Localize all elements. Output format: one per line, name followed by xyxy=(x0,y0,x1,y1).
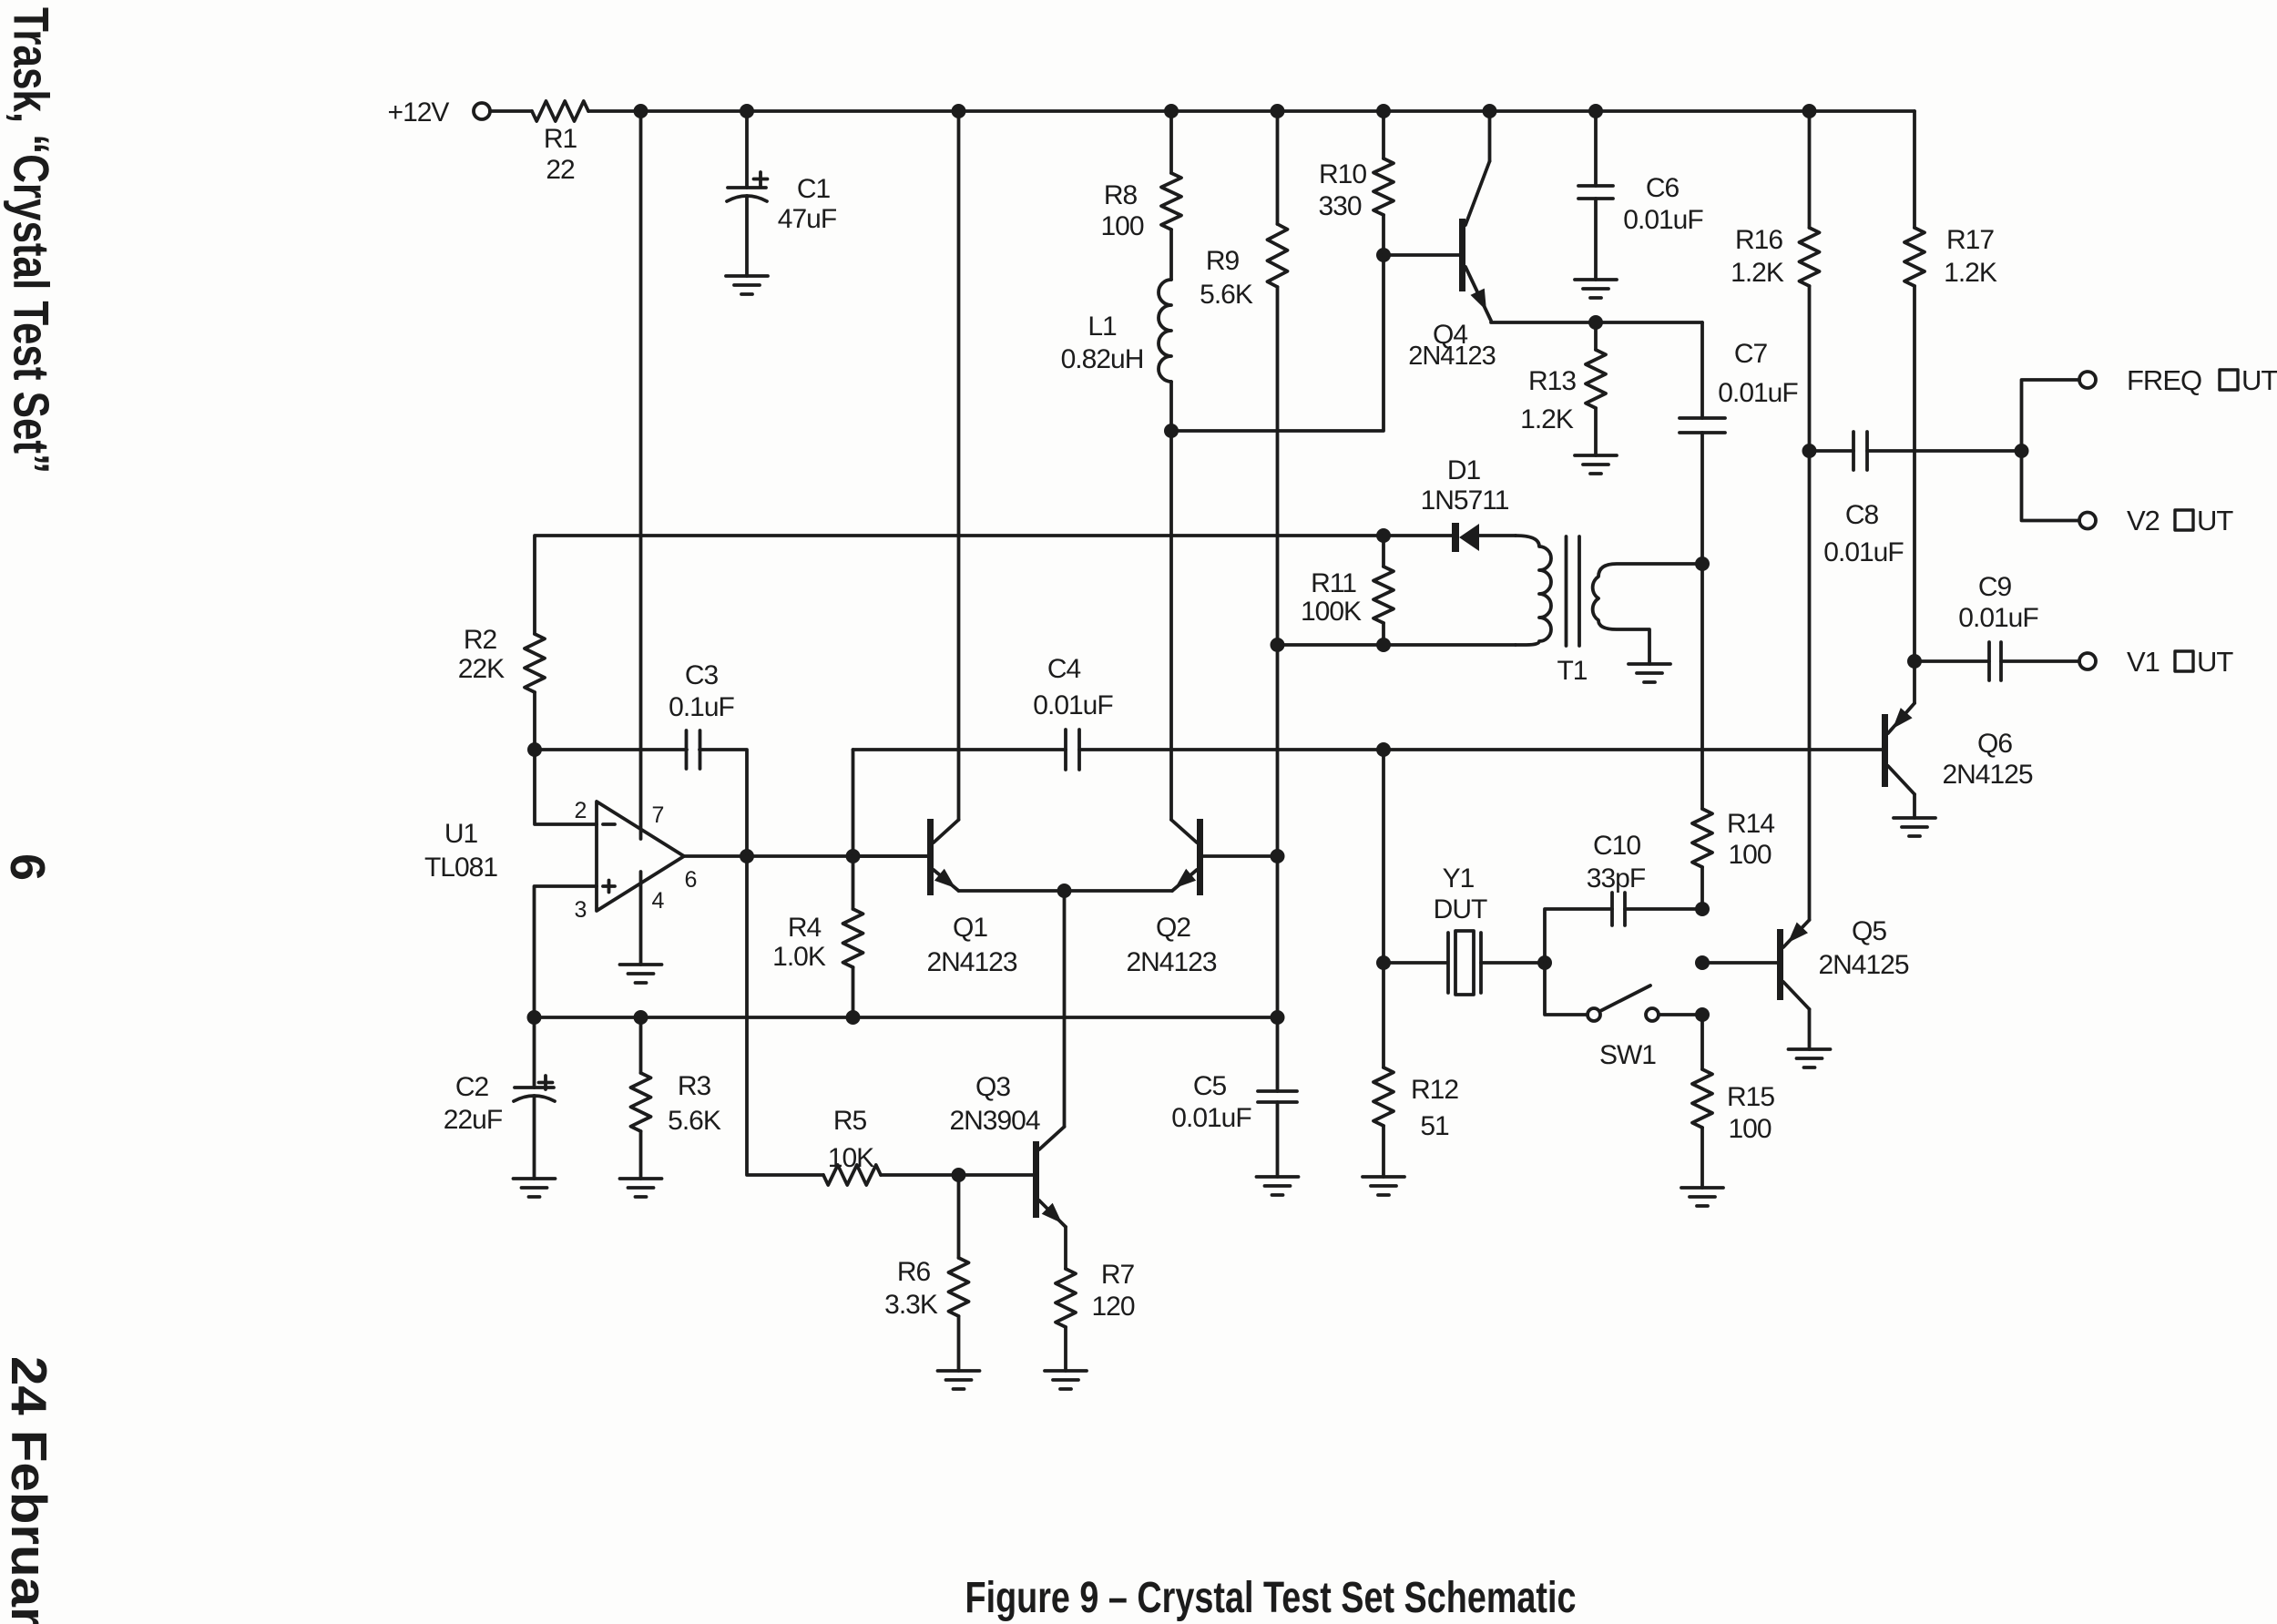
ground Q6 xyxy=(1894,818,1935,836)
junction rail / R4 xyxy=(846,1010,861,1025)
wire R5 to Q3 base xyxy=(881,1173,1033,1177)
wire R2 bottom to C3 node xyxy=(533,692,536,750)
wire Y1 branch down xyxy=(1382,750,1385,963)
svg-text:R11: R11 xyxy=(1311,568,1356,598)
junction Q5 base / C10 / R14 column xyxy=(1695,955,1710,970)
ground T1 secondary xyxy=(1629,664,1670,682)
text figure caption xyxy=(965,1574,1577,1622)
svg-text:1N5711: 1N5711 xyxy=(1421,485,1509,516)
svg-text:Trask, “Crystal Test Set”: Trask, “Crystal Test Set” xyxy=(4,7,60,474)
svg-text:C8: C8 xyxy=(1845,500,1879,530)
junction rail / C2 xyxy=(527,1010,542,1025)
wire R9 column down xyxy=(1276,287,1280,1017)
svg-text:+12V: +12V xyxy=(388,97,450,128)
svg-text:UT: UT xyxy=(2197,646,2233,678)
svg-text:10K: 10K xyxy=(828,1143,874,1173)
svg-text:Q3: Q3 xyxy=(975,1072,1010,1102)
svg-text:2N4125: 2N4125 xyxy=(1942,760,2032,790)
wire R11 bottom to T1 primary bottom xyxy=(1278,643,1516,647)
wire Q3 emitter to R7 xyxy=(1064,1227,1067,1269)
resistor R4 1.0K xyxy=(772,856,863,1017)
resistor R16 1.2K xyxy=(1731,111,1819,451)
svg-text:2N4125: 2N4125 xyxy=(1818,950,1908,980)
svg-text:100: 100 xyxy=(1728,840,1771,870)
wire U1 output xyxy=(684,854,927,858)
resistor R12 51 xyxy=(1373,963,1458,1177)
svg-text:Q6: Q6 xyxy=(1977,729,2012,759)
transistor Q1 2N4123 xyxy=(926,819,1016,977)
ground R6 xyxy=(938,1371,980,1389)
junction top rail / R16 xyxy=(1802,104,1817,118)
svg-text:100K: 100K xyxy=(1301,597,1362,627)
junction top rail / C6 xyxy=(1588,104,1603,118)
capacitor C1 47uF electrolytic xyxy=(727,111,837,276)
svg-text:24 February: 24 February xyxy=(1,1356,57,1624)
svg-text:5.6K: 5.6K xyxy=(668,1106,721,1136)
junction U1 output / C3 column xyxy=(740,849,754,863)
svg-text:1.0K: 1.0K xyxy=(772,942,826,972)
svg-text:R9: R9 xyxy=(1206,246,1240,276)
switch SW1 xyxy=(1588,986,1702,1070)
junction top rail / U1 pin7 column xyxy=(634,104,648,118)
svg-text:R3: R3 xyxy=(678,1071,711,1101)
svg-text:R6: R6 xyxy=(897,1257,931,1287)
wire Q2 base to R9 column xyxy=(1203,854,1278,858)
svg-text:33pF: 33pF xyxy=(1587,863,1646,894)
resistor R6 3.3K xyxy=(884,1175,968,1371)
wire U1 pin4 to ground xyxy=(639,872,643,965)
svg-text:6: 6 xyxy=(685,867,697,893)
wire Q6 collector down xyxy=(1913,794,1916,818)
junction top rail / C1 xyxy=(740,104,754,118)
resistor R13 1.2K xyxy=(1520,322,1606,455)
svg-text:R15: R15 xyxy=(1727,1082,1774,1112)
svg-text:DUT: DUT xyxy=(1434,894,1487,924)
wire Q3 collector to emitters junction xyxy=(1063,891,1067,1127)
wire +12V terminal to R1 xyxy=(490,109,532,113)
junction R14 / C10 xyxy=(1695,902,1710,916)
svg-text:V1: V1 xyxy=(2127,646,2160,678)
svg-text:0.01uF: 0.01uF xyxy=(1171,1103,1251,1133)
svg-text:2N3904: 2N3904 xyxy=(949,1106,1039,1136)
node R2 / C3 / pin2 junction xyxy=(527,742,542,757)
wire Q4 emitter to C7 corner xyxy=(1491,321,1702,324)
wire C4 node to Q6 base (long horizontal) xyxy=(853,748,1883,751)
ground C5 xyxy=(1257,1177,1299,1195)
junction long wire / Y1 branch xyxy=(1376,742,1391,757)
svg-text:0.01uF: 0.01uF xyxy=(1823,537,1904,567)
ground C6 xyxy=(1575,280,1617,298)
junction Y1 right / C10 / SW1 branch xyxy=(1537,955,1552,970)
svg-text:R2: R2 xyxy=(464,625,497,655)
resistor R14 100 xyxy=(1692,809,1774,909)
resistor R3 5.6K xyxy=(631,1017,721,1179)
junction R11 bottom / R11 xyxy=(1376,638,1391,652)
svg-text:TL081: TL081 xyxy=(424,853,497,883)
ground R7 xyxy=(1045,1371,1087,1389)
svg-text:U1: U1 xyxy=(444,819,478,849)
junction L1 / R10 bottom wire xyxy=(1164,424,1179,438)
wire U1 output down to R5 xyxy=(747,856,823,1175)
svg-text:C4: C4 xyxy=(1047,654,1081,684)
capacitor C6 0.01uF xyxy=(1578,111,1703,280)
resistor R8 100 xyxy=(1100,111,1181,241)
svg-text:V2: V2 xyxy=(2127,505,2160,536)
svg-text:T1: T1 xyxy=(1557,656,1587,686)
svg-text:R7: R7 xyxy=(1101,1260,1135,1290)
text sidebar date xyxy=(1,1356,57,1624)
junction top rail / R8 xyxy=(1164,104,1179,118)
inductor L1 0.82uH xyxy=(1061,230,1171,382)
crystal Y1 DUT xyxy=(1434,863,1545,995)
wire Q4 collector to top rail xyxy=(1488,111,1492,161)
wire Q4 base xyxy=(1384,253,1459,257)
transistor Q3 2N3904 xyxy=(949,1072,1066,1227)
wire output bracket xyxy=(2022,380,2080,521)
wire L1 bottom to R10 bottom xyxy=(1171,255,1384,431)
svg-text:R12: R12 xyxy=(1411,1075,1458,1105)
transistor Q5 2N4125 xyxy=(1777,916,1909,1009)
svg-text:6: 6 xyxy=(0,853,55,881)
transistor Q2 2N4123 xyxy=(1126,819,1216,977)
resistor R11 100K xyxy=(1301,536,1394,645)
capacitor C4 0.01uF xyxy=(1033,654,1113,770)
svg-text:2N4123: 2N4123 xyxy=(1408,342,1496,371)
wire D1 anode xyxy=(1384,534,1452,537)
text sidebar title xyxy=(4,7,60,474)
junction U1 output / Q1 base / C4 branch xyxy=(846,849,861,863)
svg-text:0.01uF: 0.01uF xyxy=(1623,205,1703,235)
resistor R7 120 xyxy=(1056,1260,1135,1371)
svg-text:7: 7 xyxy=(652,802,664,828)
svg-text:C6: C6 xyxy=(1646,173,1680,203)
svg-text:R1: R1 xyxy=(544,124,577,154)
svg-text:22K: 22K xyxy=(458,654,505,684)
capacitor C3 0.1uF xyxy=(535,660,747,856)
resistor R5 10K xyxy=(823,1106,881,1185)
capacitor C2 22uF electrolytic xyxy=(444,1017,555,1179)
svg-text:C7: C7 xyxy=(1734,339,1768,369)
junction R5 / R6 xyxy=(952,1168,966,1182)
svg-text:0.1uF: 0.1uF xyxy=(669,692,734,722)
transistor Q6 2N4125 xyxy=(1882,703,2033,794)
wire Q4 emitter node down to C7 xyxy=(1700,322,1704,418)
svg-text:Q1: Q1 xyxy=(953,913,987,943)
svg-text:R17: R17 xyxy=(1946,225,1994,255)
svg-text:100: 100 xyxy=(1728,1114,1771,1144)
node V1 OUT terminal xyxy=(2079,646,2233,678)
svg-text:22uF: 22uF xyxy=(444,1105,503,1135)
wire AGC feedback R2 top to D1 node xyxy=(535,536,1384,634)
svg-text:UT: UT xyxy=(2197,505,2233,536)
capacitor C9 0.01uF xyxy=(1958,572,2079,680)
ground R3 xyxy=(620,1179,662,1197)
svg-text:SW1: SW1 xyxy=(1599,1040,1656,1070)
wire C8 left xyxy=(1810,449,1854,453)
svg-text:0.01uF: 0.01uF xyxy=(1958,603,2038,633)
svg-text:0.82uH: 0.82uH xyxy=(1061,344,1144,374)
op-amp U1 TL081 xyxy=(424,798,697,923)
node FREQ OUT terminal xyxy=(2079,364,2277,396)
svg-text:C9: C9 xyxy=(1978,572,2012,602)
junction emitters / Q3 collector xyxy=(1057,883,1072,898)
svg-text:4: 4 xyxy=(652,888,665,914)
junction top rail / R10 xyxy=(1376,104,1391,118)
junction Q4 emitter wire / R13 xyxy=(1588,315,1603,330)
svg-text:R4: R4 xyxy=(788,913,822,943)
wire Q1 collector to top rail xyxy=(957,111,961,820)
ground C1 xyxy=(726,276,768,294)
ground C2 xyxy=(514,1179,556,1197)
ground U1 pin4 xyxy=(620,965,662,983)
svg-text:51: 51 xyxy=(1420,1111,1449,1141)
junction Q2 base / R9 column xyxy=(1271,849,1285,863)
svg-text:Y1: Y1 xyxy=(1443,863,1475,894)
svg-text:UT: UT xyxy=(2241,364,2277,396)
capacitor C10 33pF xyxy=(1587,831,1702,925)
capacitor C7 0.01uF xyxy=(1680,339,1798,564)
svg-text:2N4123: 2N4123 xyxy=(926,947,1016,977)
svg-text:C2: C2 xyxy=(455,1072,489,1102)
svg-text:1.2K: 1.2K xyxy=(1944,258,1997,288)
svg-text:C5: C5 xyxy=(1193,1071,1227,1101)
wire C4 left branch xyxy=(852,750,855,856)
wire Q6 emitter up to V1 node xyxy=(1913,661,1916,703)
junction Y1 left node / R12 xyxy=(1376,955,1391,970)
wire U1 pin3 non-inverting input xyxy=(535,886,597,1017)
svg-text:0.01uF: 0.01uF xyxy=(1033,690,1113,720)
wire C9 left xyxy=(1915,659,1989,663)
wire L1 to Q2 collector xyxy=(1169,382,1173,820)
svg-text:2N4123: 2N4123 xyxy=(1126,947,1216,977)
wire C10 upper branch xyxy=(1545,909,1612,963)
junction rail / R3 xyxy=(634,1010,648,1025)
node +12V power terminal xyxy=(388,97,490,128)
svg-text:R14: R14 xyxy=(1727,809,1774,839)
resistor R1 xyxy=(532,101,588,185)
ground Q5 xyxy=(1789,1049,1831,1067)
svg-text:L1: L1 xyxy=(1087,312,1117,342)
wire Q1 Q2 emitters xyxy=(959,889,1173,893)
svg-text:C10: C10 xyxy=(1593,831,1640,861)
resistor R10 330 xyxy=(1318,111,1394,255)
junction top rail / Q1 collector column xyxy=(952,104,966,118)
transformer T1 xyxy=(1516,536,1702,686)
svg-text:2: 2 xyxy=(575,798,587,823)
transistor Q4 2N4123 xyxy=(1408,161,1496,371)
wire Q5 collector to ground xyxy=(1808,1009,1812,1049)
ground R12 xyxy=(1363,1177,1404,1195)
junction output bracket xyxy=(2015,444,2029,458)
resistor R15 100 xyxy=(1692,1015,1774,1188)
svg-text:C1: C1 xyxy=(797,174,831,204)
svg-text:Figure 9 – Crystal Test Set Sc: Figure 9 – Crystal Test Set Schematic xyxy=(965,1574,1577,1622)
wire Q1 base xyxy=(853,854,928,858)
wire top +12V rail xyxy=(588,109,1915,113)
junction top rail / R9 xyxy=(1271,104,1285,118)
svg-text:3: 3 xyxy=(575,897,587,923)
junction R10 / Q4 base xyxy=(1376,248,1391,262)
svg-text:D1: D1 xyxy=(1447,455,1481,485)
resistor R17 1.2K xyxy=(1904,111,1997,661)
svg-text:R16: R16 xyxy=(1735,225,1782,255)
node D1 anode / R11 / AGC junction xyxy=(1376,528,1391,543)
svg-text:1.2K: 1.2K xyxy=(1520,404,1574,434)
svg-text:Q2: Q2 xyxy=(1156,913,1190,943)
junction SW1 / R15 column xyxy=(1695,1007,1710,1022)
junction top rail / Q4 collector xyxy=(1483,104,1497,118)
svg-text:FREQ: FREQ xyxy=(2127,364,2201,396)
svg-text:3.3K: 3.3K xyxy=(884,1290,938,1320)
svg-text:22: 22 xyxy=(546,155,575,185)
capacitor C8 0.01uF xyxy=(1823,432,2021,567)
svg-text:C3: C3 xyxy=(685,660,719,690)
svg-text:0.01uF: 0.01uF xyxy=(1718,378,1798,408)
wire U1 pin7 V+ from top rail xyxy=(639,111,643,839)
diode D1 1N5711 xyxy=(1421,455,1516,552)
junction R17 / Q6 emitter / C9 xyxy=(1907,654,1922,669)
junction C7 / T1 secondary top xyxy=(1695,557,1710,571)
resistor R2 xyxy=(458,625,545,692)
svg-text:Q5: Q5 xyxy=(1852,916,1886,946)
svg-text:R10: R10 xyxy=(1319,159,1366,189)
junction R11 bottom wire / R9 column xyxy=(1271,638,1285,652)
svg-text:120: 120 xyxy=(1091,1292,1134,1322)
wire Q5 emitter up to C8 node xyxy=(1808,451,1812,920)
svg-text:R13: R13 xyxy=(1528,366,1576,396)
svg-text:47uF: 47uF xyxy=(778,204,837,234)
svg-text:100: 100 xyxy=(1100,211,1143,241)
capacitor C5 0.01uF xyxy=(1171,1017,1297,1177)
junction R16 / C8 / Q5 emitter xyxy=(1802,444,1817,458)
wire U1 pin2 inverting input xyxy=(535,750,597,824)
resistor R9 5.6K xyxy=(1200,111,1287,310)
junction rail / C5 xyxy=(1271,1010,1285,1025)
svg-text:R8: R8 xyxy=(1104,180,1138,210)
wire C7 column down to R14 xyxy=(1700,564,1704,809)
text sidebar page number xyxy=(0,853,55,881)
ground R15 xyxy=(1681,1188,1723,1206)
svg-text:5.6K: 5.6K xyxy=(1200,280,1253,310)
svg-text:330: 330 xyxy=(1318,191,1361,221)
ground R13 xyxy=(1575,455,1617,474)
node V2 OUT terminal xyxy=(2079,505,2233,536)
svg-text:R5: R5 xyxy=(833,1106,867,1136)
wire SW1 lower branch xyxy=(1545,963,1588,1015)
svg-text:1.2K: 1.2K xyxy=(1731,258,1784,288)
wire Q5 base xyxy=(1702,961,1777,965)
wire ground-return rail xyxy=(535,1016,1278,1019)
wire Y1 left lead xyxy=(1384,961,1446,965)
